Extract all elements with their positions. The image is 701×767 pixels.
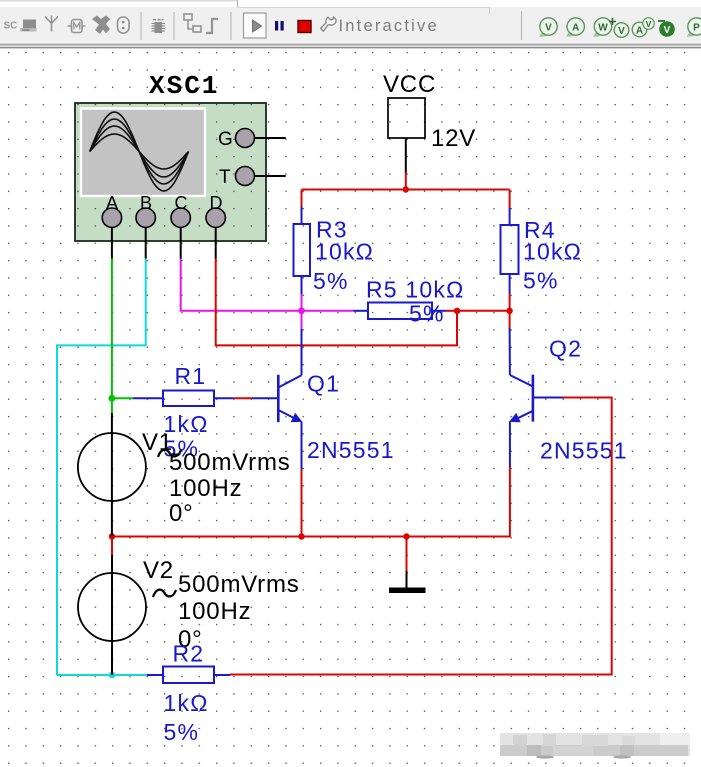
wire scope A (green) [111, 259, 113, 414]
svg-text:5%: 5% [313, 268, 349, 294]
oscilloscope screen [81, 109, 205, 197]
oscilloscope XSC1 body [75, 103, 266, 241]
source V1 lead (black) [111, 413, 113, 537]
transistor Q2 [510, 375, 533, 422]
svg-text:100Hz: 100Hz [178, 598, 251, 625]
wire Q1 collector (blue) [301, 329, 303, 375]
V1 tilde [158, 450, 181, 457]
V2 tilde [153, 590, 176, 597]
node junction magenta [298, 307, 305, 314]
svg-text:R2: R2 [173, 641, 205, 667]
svg-text:A: A [636, 26, 643, 37]
source V1 [78, 433, 146, 501]
wire scope D to mid rail (red) [216, 259, 457, 346]
wire Q2 base (blue) [533, 397, 563, 399]
svg-text:SC: SC [4, 21, 18, 32]
svg-text:V: V [545, 23, 552, 34]
wire R4 bottom to node (red) [509, 294, 511, 311]
svg-text:G: G [218, 129, 233, 150]
source V2 [78, 573, 146, 641]
probe toolbar icons [521, 11, 701, 40]
svg-text:A: A [572, 23, 579, 34]
wire Q1 emitter to bottom rail (red) [301, 469, 303, 537]
scope terminal G [218, 129, 255, 151]
svg-text:B: B [140, 193, 152, 213]
watermark (blurred) [500, 733, 690, 759]
svg-text:V: V [664, 25, 671, 36]
wire cyan to R2 (cyan) [112, 674, 147, 676]
wire Q2 collector (blue) [509, 328, 511, 375]
wire VCC to top rail (red) [405, 173, 407, 190]
svg-text:2N5551: 2N5551 [307, 437, 395, 463]
svg-text:500mVrms: 500mVrms [178, 571, 300, 598]
svg-text:10kΩ: 10kΩ [523, 239, 582, 265]
wire VCC lead (black) [405, 138, 407, 173]
scope terminal B [136, 193, 155, 227]
wire node to R5 (magenta) [302, 310, 354, 312]
wire red to Q1 base (blue) [252, 397, 277, 399]
wire cyan bottom to V2 (cyan) [57, 674, 112, 676]
scope terminal D wire (black) [215, 227, 217, 259]
wire Q2 collector node (red) [509, 311, 511, 328]
node junction ground rail [403, 533, 409, 539]
scope terminal A wire (black) [111, 227, 113, 259]
node junction green [109, 395, 116, 402]
svg-text:XSC1: XSC1 [149, 71, 219, 101]
svg-text:V: V [646, 19, 652, 29]
svg-text:D: D [210, 193, 223, 213]
svg-text:P: P [693, 23, 700, 34]
scope terminal D [206, 193, 225, 227]
node junction red right [506, 308, 512, 314]
svg-text:VCC: VCC [383, 71, 436, 98]
svg-text:2N5551: 2N5551 [540, 438, 628, 464]
wire Q2 emitter to bottom rail (red) [407, 467, 510, 537]
resistor R5 [354, 303, 447, 320]
wire R1 to Q1 base (red) [234, 397, 252, 399]
simulation controls: run, pause, stop, Interactive dropdown [244, 13, 439, 38]
transistor Q1 [278, 375, 301, 422]
wire green node to R1 (green) [112, 397, 133, 399]
svg-text:100Hz: 100Hz [169, 475, 242, 502]
wire node to node (red) [457, 310, 510, 312]
wire top rail (red) [302, 189, 510, 191]
scope waveform trace 4 [90, 134, 189, 169]
node junction cyan [109, 672, 116, 679]
wire top rail left drop to R3 (red) [301, 190, 303, 207]
scope terminal C [171, 193, 190, 227]
svg-text:12V: 12V [431, 125, 476, 152]
toolbar component icons (disabled) [4, 12, 232, 40]
scope waveform trace 2 [90, 119, 189, 184]
svg-text:1kΩ: 1kΩ [164, 690, 209, 716]
scope terminal T [219, 167, 255, 189]
VCC power symbol [383, 71, 476, 152]
ground symbol [389, 588, 426, 594]
svg-text:W: W [598, 23, 608, 34]
svg-text:10kΩ: 10kΩ [315, 239, 374, 265]
svg-text:V2: V2 [143, 557, 174, 584]
resistor R1 [133, 391, 234, 407]
node junction Q1 emitter rail [298, 533, 304, 539]
node junction VCC rail [403, 186, 409, 192]
wire ground lead (black) [406, 571, 408, 588]
wire Q2 emitter (blue) [509, 421, 511, 467]
scope terminal A [102, 193, 121, 227]
svg-text:Q1: Q1 [307, 371, 340, 397]
svg-text:C: C [175, 193, 188, 213]
resistor R4 [501, 208, 519, 294]
toolbar background [0, 0, 701, 48]
svg-text:500mVrms: 500mVrms [169, 449, 291, 476]
resistor R2 [147, 667, 230, 684]
wire Q1 collector node (magenta) [301, 311, 303, 329]
scope waveform trace 3 [90, 126, 189, 177]
svg-text:V: V [618, 26, 625, 37]
wire R5 right to node (red) [446, 310, 457, 312]
wire top rail right drop to R4 (red) [509, 190, 511, 209]
wire scope B (cyan) [57, 259, 146, 676]
svg-text:A: A [106, 193, 118, 213]
wire ground drop (red) [406, 537, 408, 572]
bottom rail (red) [112, 536, 510, 538]
scope terminal C wire (black) [180, 227, 182, 259]
wire Q2 base loop (red) [230, 398, 612, 675]
svg-text:R5 10kΩ: R5 10kΩ [366, 277, 464, 303]
scope terminal B wire (black) [145, 227, 147, 259]
wire V1 to V2 (red) [111, 537, 113, 556]
node junction V1 rail [109, 533, 115, 539]
wire scope C to node (magenta) [181, 259, 302, 311]
svg-text:R1: R1 [175, 363, 207, 389]
svg-text:Q2: Q2 [549, 336, 582, 362]
wire Q1 emitter (blue) [301, 421, 303, 469]
wire R3 bottom to node (magenta) [301, 294, 303, 311]
svg-text:T: T [219, 167, 231, 188]
scope terminal G wire stub [245, 137, 286, 139]
svg-text:0°: 0° [169, 500, 194, 527]
svg-text:5%: 5% [523, 268, 559, 294]
svg-text:5%: 5% [164, 719, 200, 745]
svg-text:5%: 5% [409, 301, 445, 327]
scope waveform trace 1 [90, 112, 189, 191]
svg-text:Interactive: Interactive [339, 17, 439, 35]
resistor R3 [294, 207, 311, 295]
source V2 lead (black) [111, 555, 113, 675]
scope terminal T wire stub [245, 175, 286, 177]
node junction red left [454, 308, 460, 314]
